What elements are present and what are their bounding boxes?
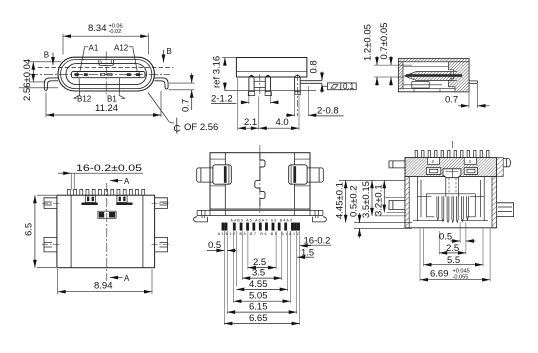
dim 1.2 ext lines [374,65,412,77]
right foot [313,217,327,222]
center line [259,145,261,215]
svg-text:8.94: 8.94 [94,281,113,292]
vertical centerline [452,141,454,150]
svg-text:5.05: 5.05 [249,291,268,302]
svg-text:0.8: 0.8 [309,60,320,73]
dim 2.5 [248,267,276,269]
section arrow A bottom [110,277,123,279]
inner walls [225,153,294,209]
ext line left [385,197,405,199]
seating plane line [225,90,316,92]
dim 0.5+-0.2 [359,213,361,223]
top notches white [427,158,439,165]
svg-text:2-0.8: 2-0.8 [317,106,339,117]
legs centerline [259,74,261,96]
svg-text:2.56±0.04: 2.56±0.04 [22,59,33,101]
vertical centerline [106,183,108,281]
left step lines [210,185,225,187]
upper cavity lines [403,67,457,85]
dim 0.7 bottom ext [469,84,478,108]
dim 3.2+-0.1 [383,180,385,212]
svg-text:1.2±0.05: 1.2±0.05 [363,24,374,61]
VIEW1 front view [19,23,218,135]
leader B1 [119,78,124,98]
dim 8.94 [58,269,152,294]
svg-text:-0.02: -0.02 [109,29,122,35]
svg-text:0.5±0.2: 0.5±0.2 [348,185,359,217]
svg-text:6.69: 6.69 [430,269,449,280]
leg2 cap [266,75,270,77]
contact windows [426,168,441,175]
svg-text:3.2±0.1: 3.2±0.1 [373,184,384,216]
svg-text:2-1.2: 2-1.2 [211,94,233,105]
dim 5.05 [234,300,291,302]
svg-text:A: A [124,177,130,186]
svg-text:0.5: 0.5 [208,240,221,251]
cage walls [417,177,484,221]
bottom dims ext lines [420,222,490,282]
tab left bottom [44,237,57,252]
right latch block [289,165,307,184]
dim 2.56 ext lines [29,62,62,82]
left foot [194,217,208,222]
lower contact outline [412,82,429,88]
seating line left [19,87,58,89]
vertical centerline [105,52,107,97]
svg-text:2.1: 2.1 [244,117,257,128]
leg feet [248,91,300,95]
corner steps [210,158,310,160]
bottom strip [197,209,323,218]
dim 8.34 line [63,35,148,37]
dim 11.24 line [46,114,161,116]
svg-text:A1: A1 [89,44,99,53]
right leg [295,77,301,91]
dim 4.45 [345,180,347,222]
dims left: ref lines [339,180,412,228]
middle contact bar hatched [405,72,452,81]
ear left bar [81,203,98,206]
pin right [300,81,322,84]
svg-text:0.7: 0.7 [181,99,192,112]
dim 6.15 [227,311,297,313]
svg-text:0.5: 0.5 [439,231,452,242]
inner side walls [71,195,143,268]
dim 0.7 lines [191,73,193,83]
VIEW2 side view [211,56,356,130]
svg-text:1.5: 1.5 [301,247,314,258]
svg-text:B: B [167,47,172,56]
tab right top [497,159,511,167]
svg-text:8.34: 8.34 [88,23,107,34]
right spring arm [307,168,323,182]
center seam zigzag [255,153,265,206]
pins row [222,223,300,231]
body outline [236,58,307,78]
tab right top [155,198,168,209]
svg-text:0.1: 0.1 [343,82,355,91]
leader A12 [129,47,138,72]
tab left bottom [389,201,405,210]
corner joint hatched [497,158,504,177]
bottom lines [403,89,455,92]
section arrow A top [110,180,123,182]
tongue [71,72,145,78]
svg-text:0.7±0.05: 0.7±0.05 [379,23,390,60]
VIEW5 bottom view [194,145,332,325]
ear right bar [116,203,133,206]
dim 4.55 [236,288,287,290]
svg-text:4.45±0.1: 4.45±0.1 [335,182,346,219]
centerline symbol leader [148,93,174,123]
dim 6.65 [224,323,299,325]
tab centerlines [42,203,170,244]
top band hatched [398,58,469,61]
dim 3.5+-0.15 [371,180,373,216]
right leg centerline [296,74,298,116]
svg-text:4.55: 4.55 [249,279,268,290]
tab left top [389,161,405,168]
right step lines [295,185,310,187]
left spring arm [197,168,213,182]
horizontal centerline [29,74,170,76]
VIEW3 side section view [363,23,490,108]
leader B12 [74,78,80,98]
VIEW4 top view [24,163,170,294]
tongue pads left [75,73,79,76]
hanging contacts [437,196,469,222]
comb teeth [415,151,489,158]
svg-text:6.15: 6.15 [249,302,268,313]
dim ref 3.16 [224,58,226,67]
svg-text:6.5: 6.5 [24,223,35,236]
top band hatched [405,158,497,177]
body sides [405,158,497,228]
body outline [57,195,155,268]
tongue center notches [101,73,105,75]
right wall hatched [492,177,497,228]
svg-text:3.5±0.15: 3.5±0.15 [361,181,372,218]
body outline [210,153,310,209]
section line B-B dashed [38,66,173,68]
leader A1 [80,47,89,72]
dim 3.5 [242,277,282,279]
right block hatched [449,62,470,92]
tab right bottom [155,237,168,252]
dim 8.34 ext lines [63,34,148,55]
right leg [154,78,168,89]
top bump recess [99,60,114,66]
dim 2.1 / 4.0 [238,78,299,130]
dim 0.8 [321,72,323,81]
leg1 cap [249,75,253,77]
bottom edge [405,227,497,229]
cage inner box [426,194,475,217]
cavity inner oval [66,64,146,85]
flatness symbol [331,85,338,89]
dim 2.56 line [32,62,34,82]
ear right box [117,195,127,202]
middle piece [98,211,116,218]
comb teeth [67,189,144,195]
svg-text:B12: B12 [77,95,92,104]
svg-text:A: A [124,274,130,283]
svg-text:11.24: 11.24 [95,103,118,114]
shell outer oval [58,57,154,91]
svg-text:16-0.2±0.05: 16-0.2±0.05 [76,163,142,174]
B arrow right [163,50,165,63]
body inner line [236,71,307,73]
svg-text:A1B12 B9 B7 B6 B5 B1A12: A1B12 B9 B7 B6 B5 B1A12 [218,232,299,236]
left latch block [213,165,231,184]
svg-text:2.5: 2.5 [253,257,266,268]
flatness callout box [328,83,357,90]
ear left box [85,195,95,202]
dim 0.7 ext lines [169,83,195,90]
B arrow left [52,53,54,66]
svg-text:ref 3.16: ref 3.16 [212,56,223,88]
center piece [443,169,461,178]
left wall hatched [398,62,403,89]
dim 11.24 ext lines [46,91,161,117]
svg-text:4.0: 4.0 [276,117,289,128]
tongue end caps [77,72,139,78]
leg2 [265,77,270,91]
right leg cap [295,75,300,77]
body outline [398,58,469,91]
svg-text:0.7: 0.7 [445,95,458,106]
VIEW6 section A-A [335,141,514,282]
tab right bottom [497,203,514,217]
svg-text:3.5: 3.5 [252,268,265,279]
pin right [469,81,478,84]
svg-text:OF 2.56: OF 2.56 [184,122,218,133]
left leg [44,78,58,91]
svg-text:B: B [44,51,49,60]
tongue pads right [127,73,131,76]
svg-text:A12: A12 [114,44,129,53]
cavity floor [413,220,488,222]
dim 6.5 [37,195,56,268]
left wall hatched [405,177,409,228]
tab left top [44,198,57,209]
shell second outline [61,60,152,89]
stack ext lines [224,231,299,325]
crossbar between legs [254,82,265,88]
center tongue support [446,177,459,197]
svg-text:6.65: 6.65 [249,313,268,324]
leg pair left: leg1 [249,77,254,91]
